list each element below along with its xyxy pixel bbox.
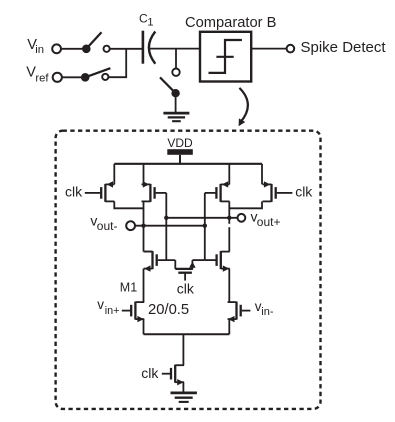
svg-text:Comparator B: Comparator B	[185, 15, 277, 31]
svg-text:Spike Detect: Spike Detect	[301, 39, 387, 56]
svg-text:out-: out-	[97, 219, 118, 233]
svg-text:in: in	[35, 44, 44, 56]
svg-text:v: v	[97, 297, 104, 312]
svg-text:clk: clk	[65, 183, 83, 199]
svg-text:20/0.5: 20/0.5	[148, 302, 189, 318]
svg-text:clk: clk	[295, 183, 313, 199]
svg-text:clk: clk	[177, 280, 195, 296]
svg-text:VDD: VDD	[167, 136, 193, 150]
svg-text:in+: in+	[105, 305, 120, 317]
svg-text:in-: in-	[261, 306, 274, 318]
svg-text:clk: clk	[141, 365, 159, 381]
svg-text:out+: out+	[257, 215, 281, 229]
svg-text:ref: ref	[35, 73, 49, 85]
svg-text:M1: M1	[120, 281, 137, 295]
svg-text:1: 1	[147, 17, 153, 29]
